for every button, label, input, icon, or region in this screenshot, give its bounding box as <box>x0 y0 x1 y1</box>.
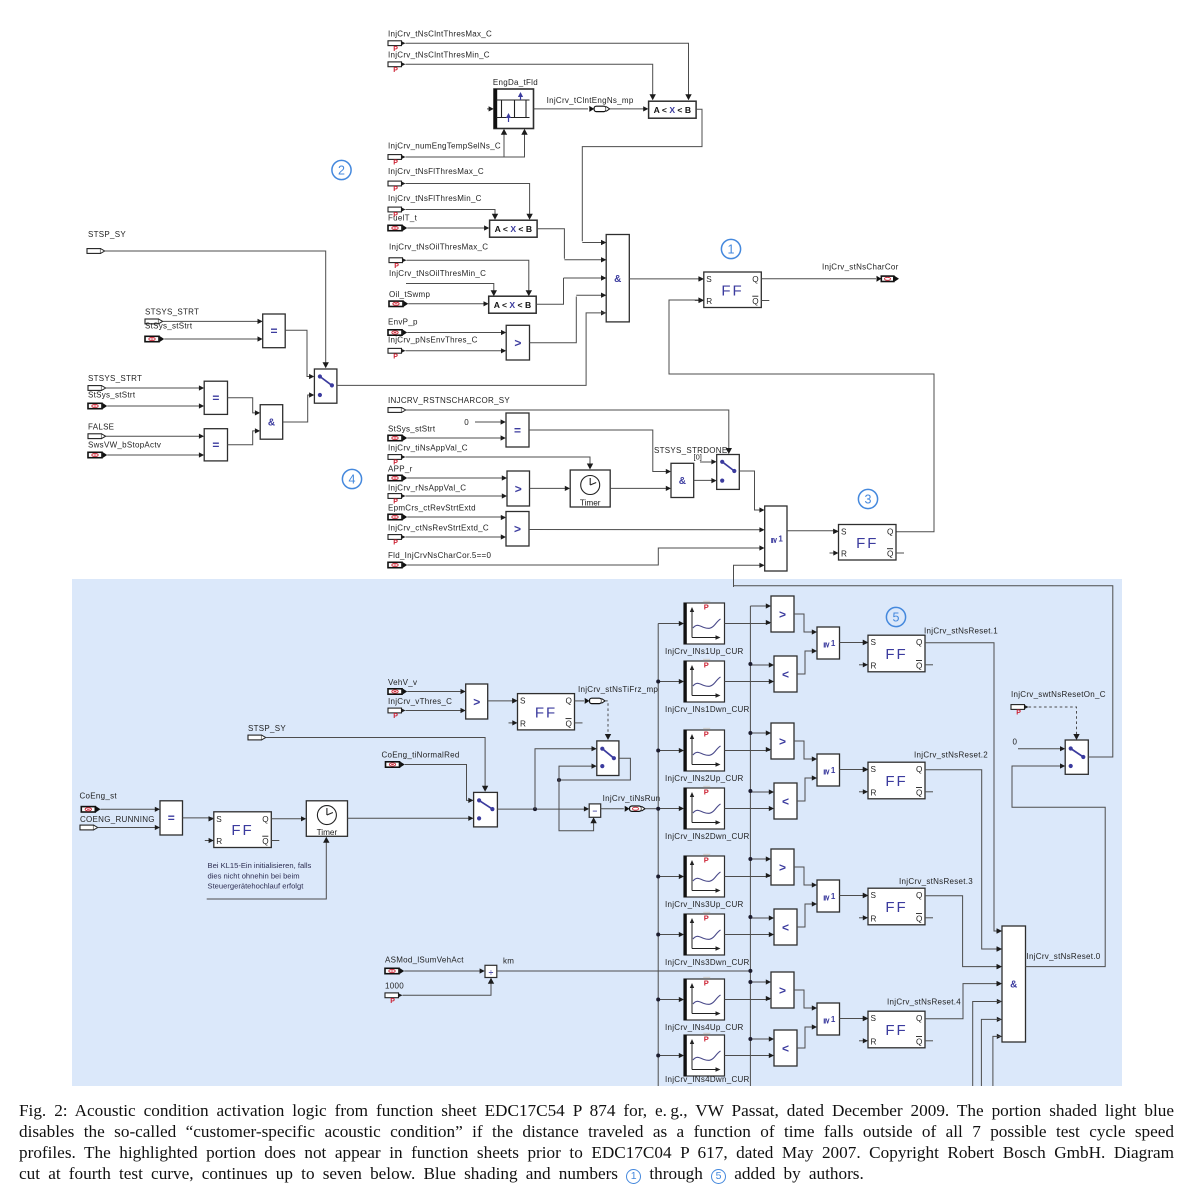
svg-text:CoEng_st: CoEng_st <box>80 792 118 801</box>
svg-text:STSYS_STRDONE: STSYS_STRDONE <box>654 446 727 455</box>
svg-text:P: P <box>704 788 709 797</box>
svg-text:R: R <box>520 719 526 728</box>
svg-text:>: > <box>514 522 521 536</box>
svg-text:InjCrv_stNsReset.3: InjCrv_stNsReset.3 <box>899 877 973 886</box>
svg-text:InjCrv_swtNsResetOn_C: InjCrv_swtNsResetOn_C <box>1011 690 1106 699</box>
svg-text:STSYS_STRT: STSYS_STRT <box>145 308 199 317</box>
svg-text:StSys_stStrt: StSys_stStrt <box>145 322 193 331</box>
svg-text:FF: FF <box>231 822 253 839</box>
svg-text:Q: Q <box>916 1037 922 1046</box>
svg-text:InjCrv_stNsReset.2: InjCrv_stNsReset.2 <box>914 751 988 760</box>
svg-text:STSP_SY: STSP_SY <box>248 724 286 733</box>
svg-text:>: > <box>779 607 786 621</box>
svg-text:>: > <box>514 336 521 350</box>
svg-text:InjCrv_ctNsRevStrtExtd_C: InjCrv_ctNsRevStrtExtd_C <box>388 524 489 533</box>
svg-text:Q: Q <box>887 528 893 537</box>
svg-text:InjCrv_tNsOilThresMin_C: InjCrv_tNsOilThresMin_C <box>389 269 486 278</box>
svg-text:FF: FF <box>885 773 907 790</box>
svg-text:S: S <box>871 891 877 900</box>
svg-text:<: < <box>782 667 789 681</box>
svg-text:CoEng_tiNormalRed: CoEng_tiNormalRed <box>382 751 460 760</box>
svg-text:InjCrv_rNsAppVal_C: InjCrv_rNsAppVal_C <box>388 484 466 493</box>
svg-text:InjCrv_vThres_C: InjCrv_vThres_C <box>388 697 452 706</box>
svg-text:P: P <box>704 856 709 865</box>
svg-text:Q: Q <box>262 815 268 824</box>
svg-text:=: = <box>212 438 219 452</box>
svg-text:Q: Q <box>916 765 922 774</box>
svg-text:StSys_stStrt: StSys_stStrt <box>388 425 436 434</box>
svg-text:InjCrv_stNsReset.4: InjCrv_stNsReset.4 <box>887 998 961 1007</box>
svg-text:P: P <box>704 979 709 988</box>
svg-text:km: km <box>503 957 514 966</box>
svg-text:P: P <box>393 713 398 720</box>
svg-text:P: P <box>704 1035 709 1044</box>
svg-text:=: = <box>212 391 219 405</box>
svg-text:Q: Q <box>887 550 893 559</box>
svg-text:<: < <box>782 920 789 934</box>
svg-text:FF: FF <box>885 899 907 916</box>
svg-text:A < X < B: A < X < B <box>495 224 532 234</box>
svg-text:3: 3 <box>865 492 872 506</box>
svg-text:SwsVW_bStopActv: SwsVW_bStopActv <box>88 441 161 450</box>
svg-text:Timer: Timer <box>580 499 601 508</box>
svg-text:=: = <box>514 423 521 437</box>
svg-text:[0]: [0] <box>694 453 702 462</box>
svg-text:P: P <box>393 186 398 193</box>
svg-text:Steuergerätehochlauf erfolgt: Steuergerätehochlauf erfolgt <box>208 882 305 891</box>
svg-text:=: = <box>168 811 175 825</box>
svg-text:1: 1 <box>831 892 836 901</box>
svg-text:P: P <box>390 998 395 1005</box>
svg-text:InjCrv_stNsTiFrz_mp: InjCrv_stNsTiFrz_mp <box>578 685 658 694</box>
svg-text:>: > <box>779 983 786 997</box>
svg-text:InjCrv_stNsReset.1: InjCrv_stNsReset.1 <box>924 627 998 636</box>
svg-text:P: P <box>704 661 709 670</box>
svg-text:InjCrv_tNsFlThresMax_C: InjCrv_tNsFlThresMax_C <box>388 167 484 176</box>
svg-text:InjCrv_INs1Up_CUR: InjCrv_INs1Up_CUR <box>665 647 744 656</box>
svg-text:Q: Q <box>752 297 758 306</box>
svg-text:InjCrv_INs3Dwn_CUR: InjCrv_INs3Dwn_CUR <box>665 958 750 967</box>
svg-text:1: 1 <box>831 766 836 775</box>
svg-text:InjCrv_INs2Dwn_CUR: InjCrv_INs2Dwn_CUR <box>665 832 750 841</box>
svg-text:APP_r: APP_r <box>388 465 413 474</box>
svg-text:Q: Q <box>916 788 922 797</box>
svg-text:FF: FF <box>721 282 743 299</box>
svg-text:S: S <box>520 697 526 706</box>
svg-text:FF: FF <box>856 535 878 552</box>
svg-text:S: S <box>871 1014 877 1023</box>
svg-text:&: & <box>268 418 275 429</box>
svg-text:InjCrv_numEngTempSelNs_C: InjCrv_numEngTempSelNs_C <box>388 142 501 151</box>
svg-text:2: 2 <box>338 163 345 177</box>
svg-text:R: R <box>706 297 712 306</box>
svg-text:EnvP_p: EnvP_p <box>388 318 418 327</box>
svg-text:InjCrv_INs4Up_CUR: InjCrv_INs4Up_CUR <box>665 1023 744 1032</box>
svg-text:InjCrv_INs3Up_CUR: InjCrv_INs3Up_CUR <box>665 900 744 909</box>
svg-text:R: R <box>871 788 877 797</box>
svg-text:P: P <box>393 160 398 167</box>
svg-text:InjCrv_tiNsRun: InjCrv_tiNsRun <box>603 794 661 803</box>
svg-text:P: P <box>393 67 398 74</box>
svg-text:P: P <box>393 540 398 547</box>
svg-text:P: P <box>393 354 398 361</box>
svg-text:Q: Q <box>916 914 922 923</box>
svg-text:INJCRV_RSTNSCHARCOR_SY: INJCRV_RSTNSCHARCOR_SY <box>388 396 510 405</box>
svg-text:–: – <box>593 805 598 815</box>
svg-text:A < X < B: A < X < B <box>494 300 531 310</box>
svg-text:InjCrv_tiNsAppVal_C: InjCrv_tiNsAppVal_C <box>388 444 468 453</box>
svg-text:InjCrv_INs1Dwn_CUR: InjCrv_INs1Dwn_CUR <box>665 705 750 714</box>
svg-text:&: & <box>679 476 686 487</box>
svg-text:S: S <box>871 765 877 774</box>
svg-text:COENG_RUNNING: COENG_RUNNING <box>80 815 155 824</box>
svg-text:InjCrv_pNsEnvThres_C: InjCrv_pNsEnvThres_C <box>388 336 478 345</box>
svg-text:FALSE: FALSE <box>88 423 114 432</box>
svg-text:InjCrv_stNsCharCor: InjCrv_stNsCharCor <box>822 263 899 272</box>
svg-text:FF: FF <box>885 646 907 663</box>
svg-text:P: P <box>704 730 709 739</box>
svg-text:1: 1 <box>728 242 735 256</box>
svg-text:StSys_stStrt: StSys_stStrt <box>88 391 136 400</box>
svg-text:EngDa_tFld: EngDa_tFld <box>493 78 538 87</box>
svg-text:InjCrv_INs2Up_CUR: InjCrv_INs2Up_CUR <box>665 774 744 783</box>
svg-text:R: R <box>871 661 877 670</box>
svg-text:EpmCrs_ctRevStrtExtd: EpmCrs_ctRevStrtExtd <box>388 504 476 513</box>
svg-text:STSP_SY: STSP_SY <box>88 230 126 239</box>
svg-text:>: > <box>515 482 522 496</box>
svg-text:=: = <box>270 324 277 338</box>
svg-text:>: > <box>473 695 480 709</box>
svg-text:S: S <box>706 275 712 284</box>
svg-text:0: 0 <box>464 418 469 427</box>
svg-text:VehV_v: VehV_v <box>388 678 417 687</box>
svg-text:STSYS_STRT: STSYS_STRT <box>88 374 142 383</box>
svg-text:P: P <box>704 603 709 612</box>
svg-text:Fld_InjCrvNsCharCor.5==0: Fld_InjCrvNsCharCor.5==0 <box>388 551 491 560</box>
svg-text:ASMod_lSumVehAct: ASMod_lSumVehAct <box>385 956 464 965</box>
svg-text:<: < <box>782 794 789 808</box>
svg-text:1000: 1000 <box>385 982 404 991</box>
svg-text:R: R <box>841 550 847 559</box>
svg-text:>: > <box>779 734 786 748</box>
svg-text:&: & <box>1010 980 1017 991</box>
svg-text:Q: Q <box>916 638 922 647</box>
svg-text:Q: Q <box>566 719 572 728</box>
svg-text:S: S <box>871 638 877 647</box>
svg-text:÷: ÷ <box>489 967 494 977</box>
svg-text:FF: FF <box>535 704 557 721</box>
svg-text:InjCrv_tNsOilThresMax_C: InjCrv_tNsOilThresMax_C <box>389 243 488 252</box>
svg-text:>: > <box>779 860 786 874</box>
svg-text:FuelT_t: FuelT_t <box>388 214 418 223</box>
svg-text:FF: FF <box>885 1022 907 1039</box>
svg-text:1: 1 <box>778 535 783 544</box>
svg-text:Timer: Timer <box>317 828 338 837</box>
svg-text:1: 1 <box>831 639 836 648</box>
svg-text:P: P <box>704 914 709 923</box>
svg-text:<: < <box>782 1041 789 1055</box>
svg-text:InjCrv_stNsReset.0: InjCrv_stNsReset.0 <box>1027 952 1101 961</box>
svg-text:dies nicht ohnehin bei beim: dies nicht ohnehin bei beim <box>208 871 300 880</box>
svg-text:InjCrv_tNsClntThresMax_C: InjCrv_tNsClntThresMax_C <box>388 30 492 39</box>
svg-text:Oil_tSwmp: Oil_tSwmp <box>389 290 430 299</box>
svg-text:A < X < B: A < X < B <box>654 105 691 115</box>
svg-text:1: 1 <box>831 1015 836 1024</box>
svg-text:Bei KL15-Ein initialisieren, f: Bei KL15-Ein initialisieren, falls <box>208 861 312 870</box>
svg-text:InjCrv_tNsFlThresMin_C: InjCrv_tNsFlThresMin_C <box>388 194 482 203</box>
svg-text:Q: Q <box>916 891 922 900</box>
svg-text:4: 4 <box>349 472 356 486</box>
svg-text:Q: Q <box>752 275 758 284</box>
svg-text:S: S <box>216 815 222 824</box>
svg-text:InjCrv_tNsClntThresMin_C: InjCrv_tNsClntThresMin_C <box>388 51 490 60</box>
svg-text:R: R <box>871 914 877 923</box>
svg-text:5: 5 <box>893 610 900 624</box>
svg-text:R: R <box>216 837 222 846</box>
svg-text:0: 0 <box>1013 738 1018 747</box>
svg-text:Q: Q <box>566 697 572 706</box>
svg-text:Q: Q <box>916 661 922 670</box>
svg-text:P: P <box>1016 710 1021 717</box>
svg-text:InjCrv_INs4Dwn_CUR: InjCrv_INs4Dwn_CUR <box>665 1075 750 1084</box>
svg-text:&: & <box>614 274 621 285</box>
svg-text:InjCrv_tClntEngNs_mp: InjCrv_tClntEngNs_mp <box>547 96 634 105</box>
svg-text:S: S <box>841 528 847 537</box>
svg-text:Q: Q <box>916 1014 922 1023</box>
svg-text:R: R <box>871 1037 877 1046</box>
svg-text:Q: Q <box>262 837 268 846</box>
